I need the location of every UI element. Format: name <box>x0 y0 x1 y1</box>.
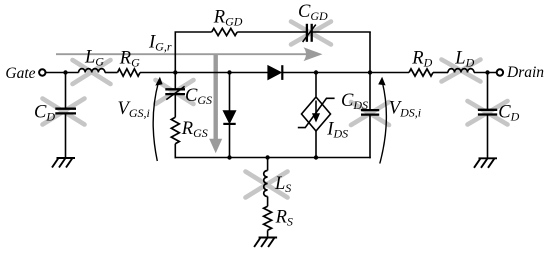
wire Cd gate branch upper <box>65 73 67 109</box>
capacitor CD gate <box>55 109 76 114</box>
arrow VDSi <box>378 77 386 164</box>
node D2 bottom <box>227 155 231 159</box>
node D2 top <box>227 70 231 74</box>
inductor LS <box>264 171 268 197</box>
wire Cd drain branch to ground <box>487 115 489 159</box>
resistor RG <box>118 69 141 76</box>
inductor LD <box>448 69 474 73</box>
ground drain side <box>474 158 497 168</box>
wire Rs to ground <box>267 230 269 237</box>
inductor LG <box>79 69 105 73</box>
node drain internal <box>368 70 372 74</box>
gate terminal <box>39 69 45 75</box>
wire top rail right segment <box>312 31 371 33</box>
X-mark over Cgs <box>156 80 194 104</box>
X-mark over Cd gate <box>43 99 85 125</box>
wire Cds branch lower <box>369 115 371 158</box>
wire right riser from top rail <box>369 32 371 73</box>
capacitor CDS <box>361 110 379 115</box>
wire bottom rail <box>175 157 371 159</box>
node gate lead <box>63 70 67 74</box>
ground source <box>254 238 277 248</box>
wire drain node to Rd <box>370 72 409 74</box>
wire diode D2 branch lower <box>229 124 231 158</box>
capacitor CGD <box>303 24 316 42</box>
X-mark over Cgd <box>291 22 331 45</box>
node source <box>265 155 269 159</box>
resistor RGS <box>171 117 179 143</box>
X-mark over Ls <box>246 172 288 198</box>
X-mark over Lg <box>73 60 111 84</box>
wire Ld to drain terminal <box>474 72 497 74</box>
wire Rgs to bottom rail <box>174 144 176 159</box>
wire Rd to Ld <box>433 72 448 74</box>
capacitor CGS <box>165 86 185 99</box>
wire left riser to top rail <box>174 32 176 73</box>
resistor RGD <box>212 28 238 35</box>
drain terminal <box>497 69 503 75</box>
node Ids top <box>314 70 318 74</box>
node gate internal <box>173 70 177 74</box>
wire Rg to gate internal node <box>140 72 175 74</box>
current source IDS diamond <box>298 97 335 131</box>
wire top rail left segment <box>175 31 212 33</box>
wire top rail middle segment <box>237 31 307 33</box>
X-mark over Cds <box>351 102 389 125</box>
wire Cd drain branch upper <box>487 73 489 110</box>
wire Cds branch upper <box>369 73 371 110</box>
svg-text:Drain: Drain <box>506 64 544 81</box>
wire Ls to Rs <box>267 197 269 207</box>
wire internal node to diode D1 <box>175 72 268 74</box>
capacitor CD drain <box>478 110 497 115</box>
current arrow IGr vertical branch <box>209 55 222 153</box>
wire Cgs to Rgs <box>174 94 176 117</box>
current arrow IGr horizontal <box>56 47 323 61</box>
wire Cgs branch upper <box>174 73 176 90</box>
ground gate side <box>52 158 75 168</box>
X-mark over Ld <box>442 60 481 82</box>
node drain lead <box>485 70 489 74</box>
wire gate lead <box>45 72 78 74</box>
arrow VGSi <box>153 77 162 161</box>
resistor RD <box>409 69 433 76</box>
diode D2 vertical <box>223 111 235 124</box>
wire D1 to drain internal node <box>282 72 370 74</box>
wire Lg to Rg <box>105 72 118 74</box>
diode D1 on channel wire <box>268 65 282 80</box>
wire source branch to Ls <box>267 158 269 171</box>
X-mark over Cd drain <box>468 101 508 125</box>
wire diode D2 branch upper <box>229 73 231 112</box>
resistor RS <box>264 206 272 230</box>
svg-text:Gate: Gate <box>5 65 35 82</box>
wire Cd gate branch to ground <box>65 114 67 158</box>
node Ids bottom <box>314 155 318 159</box>
wire Ids branch lower <box>315 131 317 158</box>
wire Ids branch upper <box>315 73 317 97</box>
